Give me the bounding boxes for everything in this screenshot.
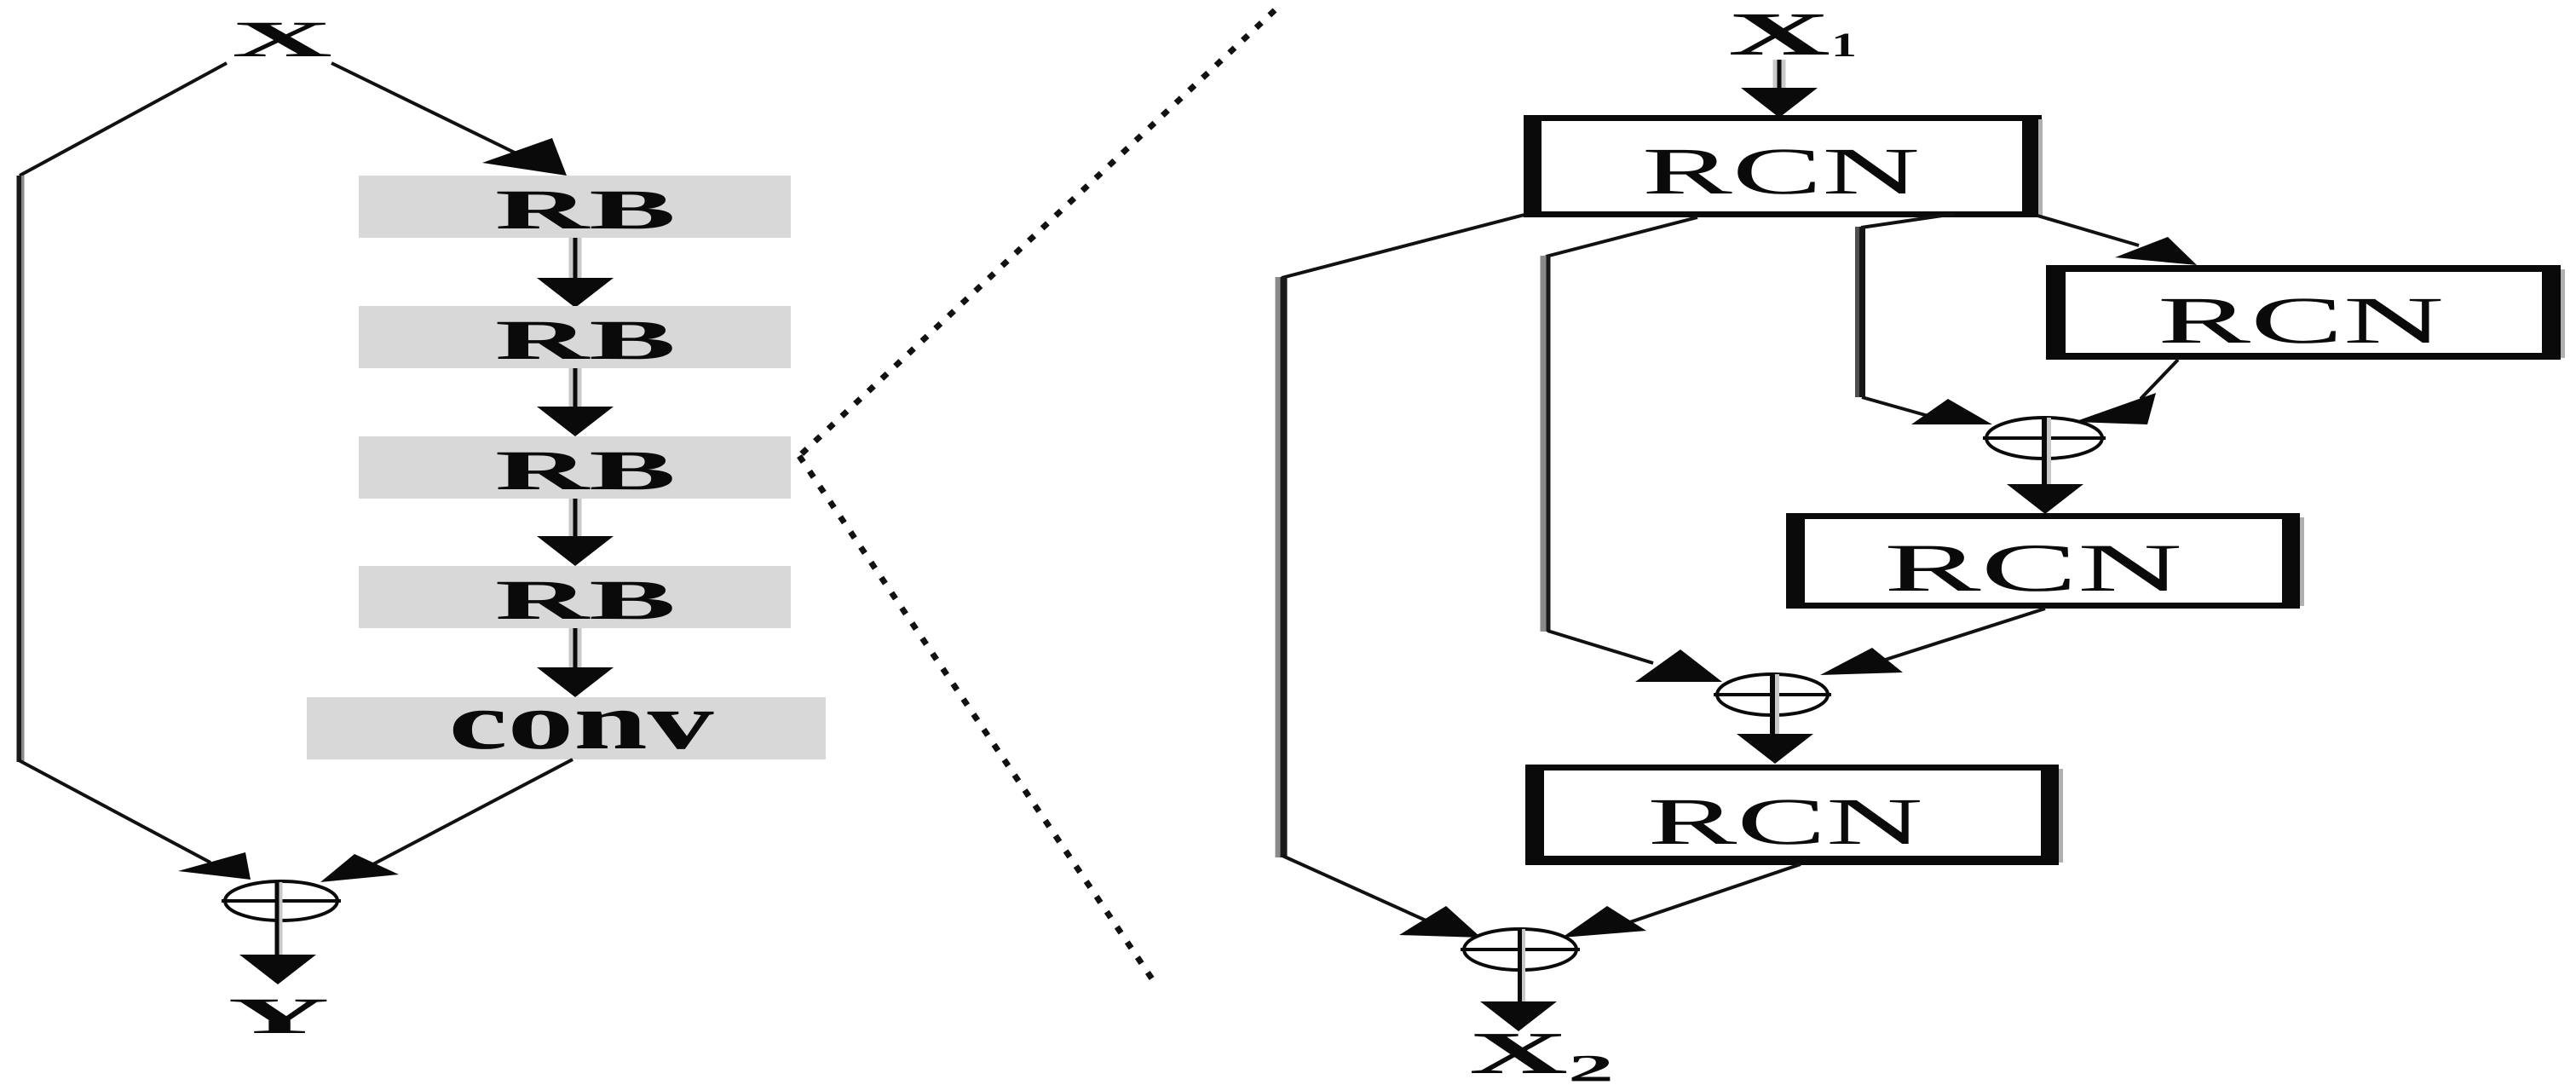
wire left bottom diagonal to adder bbox=[19, 760, 210, 863]
arrowhead into final adder (left input) bbox=[1399, 906, 1481, 938]
wire RCN2 to adder 1 bbox=[2141, 360, 2178, 399]
arrow adder 1 to RCN3 bbox=[2007, 484, 2083, 514]
dashed line lower bbox=[799, 456, 1156, 985]
svg-text:RB: RB bbox=[495, 309, 676, 372]
block RB1 bbox=[359, 176, 791, 238]
arrow left adder to Y bbox=[239, 955, 316, 984]
svg-text:RCN: RCN bbox=[2158, 283, 2444, 357]
block RCN3 bbox=[1786, 513, 2304, 609]
arrow X1 to RCN1 bbox=[1741, 60, 1818, 118]
block RCN4 bbox=[1525, 765, 2063, 865]
adder 1 (circled plus) bbox=[1983, 418, 2106, 484]
arrow final adder to X2 bbox=[1480, 1001, 1557, 1031]
wire RCN1 to skip line 2 bbox=[1546, 217, 1697, 257]
arrow RB4 to conv bbox=[537, 628, 614, 697]
svg-text:Y: Y bbox=[228, 988, 330, 1044]
arrowhead into RB1 bbox=[482, 138, 567, 176]
svg-text:RCN: RCN bbox=[1642, 134, 1920, 208]
block RB3 bbox=[359, 436, 791, 499]
arrow RB3 to RB4 bbox=[537, 499, 614, 566]
svg-text:X: X bbox=[1728, 0, 1830, 68]
arrowhead into middle adder (right input) bbox=[1820, 648, 1903, 675]
block RB4 bbox=[359, 566, 791, 628]
svg-text:RB: RB bbox=[495, 440, 676, 502]
svg-text:RB: RB bbox=[495, 569, 676, 632]
svg-text:X: X bbox=[232, 11, 332, 67]
wire skip line 1 vertical bbox=[1276, 277, 1288, 857]
node X2 bbox=[1469, 1021, 1614, 1085]
wire RCN4 to final adder bbox=[1617, 864, 1801, 926]
arrow adder 2 to RCN4 bbox=[1737, 734, 1813, 764]
node X1 bbox=[1728, 0, 1857, 68]
svg-text:conv: conv bbox=[449, 678, 714, 766]
wire X to left vertical bbox=[20, 63, 227, 176]
wire skip line 2 vertical bbox=[1541, 256, 1551, 632]
arrowhead into middle adder (left input) bbox=[1635, 649, 1722, 682]
svg-text:1: 1 bbox=[1831, 26, 1857, 64]
wire skip line 1 to final adder bbox=[1282, 856, 1449, 931]
wire RCN3 to middle adder bbox=[1875, 609, 2045, 663]
arrowhead into final adder (right input) bbox=[1562, 906, 1646, 938]
arrowhead into adder 1 (left input) bbox=[1911, 399, 1992, 424]
block RCN2 bbox=[2046, 265, 2565, 360]
wire inner skip vertical bbox=[1855, 227, 1865, 397]
wire RCN1 to RCN2 bbox=[2037, 216, 2139, 245]
svg-text:X: X bbox=[1469, 1021, 1568, 1085]
svg-text:2: 2 bbox=[1568, 1047, 1614, 1085]
wire left vertical skip bbox=[17, 176, 25, 762]
wire skip line 2 to middle adder bbox=[1547, 631, 1653, 663]
wire RCN1 to inner skip line bbox=[1861, 214, 1954, 228]
wire X to RB1 bbox=[331, 63, 520, 155]
arrow RB2 to RB3 bbox=[537, 368, 614, 436]
svg-text:RB: RB bbox=[495, 179, 676, 241]
dashed line upper bbox=[799, 10, 1275, 456]
arrowhead into left adder (right input) bbox=[320, 854, 399, 882]
wire conv to left adder bbox=[370, 759, 573, 866]
adder 3 (circled plus, final) bbox=[1461, 929, 1580, 1001]
block conv bbox=[307, 697, 826, 759]
block RCN1 bbox=[1524, 115, 2043, 217]
svg-text:RCN: RCN bbox=[1648, 784, 1923, 858]
wire RCN1 to skip line 1 bbox=[1282, 215, 1524, 278]
block RB2 bbox=[359, 306, 791, 368]
arrow RB1 to RB2 bbox=[537, 238, 614, 308]
arrowhead into RCN2 bbox=[2115, 237, 2197, 265]
wire inner skip to adder 1 bbox=[1862, 397, 1934, 418]
adder 2 (circled plus, middle) bbox=[1714, 674, 1831, 734]
svg-text:RCN: RCN bbox=[1884, 531, 2182, 606]
arrowhead into adder 1 (right input) bbox=[2074, 393, 2156, 424]
arrowhead into left adder (left input) bbox=[178, 852, 251, 880]
adder (circled plus) left diagram bbox=[222, 881, 341, 955]
